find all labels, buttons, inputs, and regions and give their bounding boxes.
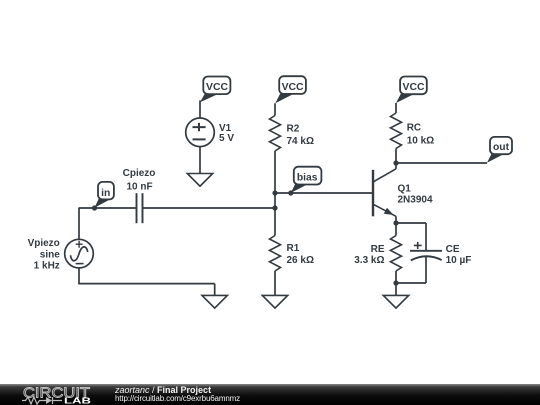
sine source Vpiezo (65, 239, 94, 268)
svg-text:RE: RE (371, 244, 385, 255)
svg-text:R2: R2 (287, 124, 300, 135)
node flag in (95, 182, 114, 208)
svg-text:bias: bias (297, 172, 318, 183)
svg-text:out: out (493, 142, 510, 153)
wire bias node to Q1 base (275, 192, 373, 194)
wire CE bottom plate down (425, 257, 427, 283)
wire VCC1 to V1 top (199, 100, 201, 118)
wire RE bottom to node (395, 271, 397, 283)
capacitor Cpiezo (137, 193, 143, 223)
svg-text:Cpiezo: Cpiezo (123, 168, 156, 179)
svg-text:V1: V1 (219, 123, 232, 134)
wire Cpiezo right plate to bias column (143, 207, 276, 209)
svg-text:3.3 kΩ: 3.3 kΩ (354, 255, 384, 266)
node flag VCC (over R2) (275, 76, 306, 103)
svg-text:in: in (101, 188, 110, 199)
wire CE column down to top plate (425, 223, 427, 251)
wire out node horizontal (396, 162, 487, 164)
svg-text:10 kΩ: 10 kΩ (407, 136, 434, 147)
node flag VCC (over V1) (200, 77, 230, 103)
svg-text:5 V: 5 V (219, 133, 234, 144)
wire CE bottom to emitter ground node (396, 282, 426, 284)
wire RE node to ground (395, 283, 397, 295)
node bias junction dot (R2/R1/base) (272, 190, 277, 195)
node in-wire junction dot (272, 205, 277, 210)
svg-text:LAB: LAB (64, 396, 91, 405)
capacitor CE (polarized) (410, 242, 442, 261)
wire emitter node to CE top (396, 222, 426, 224)
svg-text:sine: sine (40, 249, 60, 260)
resistor R1 (270, 236, 281, 272)
ground below R1 (262, 295, 287, 308)
ground below RE (383, 295, 408, 308)
svg-text:10 nF: 10 nF (126, 182, 152, 193)
svg-text:74 kΩ: 74 kΩ (287, 136, 314, 147)
footer bar (0, 384, 540, 405)
node bias flag dot (288, 190, 293, 195)
svg-text:RC: RC (407, 123, 421, 134)
wire bottom horizontal to ground (78, 283, 215, 285)
svg-text:Q1: Q1 (398, 184, 412, 195)
wire VCC3 to RC top (395, 103, 397, 113)
wire RC bottom to out node (395, 149, 397, 164)
resistor RC (391, 113, 402, 148)
svg-text:Vpiezo: Vpiezo (28, 238, 60, 249)
node flag bias (291, 167, 322, 193)
svg-text:2N3904: 2N3904 (398, 194, 433, 205)
node emitter-ground junction dot (393, 280, 398, 285)
svg-text:VCC: VCC (403, 82, 425, 93)
svg-text:CE: CE (446, 244, 460, 255)
wire emitter vertical to node (395, 216, 397, 223)
transistor Q1 2N3904 (373, 169, 396, 217)
wire VCC2 to R2 top (274, 103, 276, 115)
ground below Vpiezo rail (202, 295, 227, 308)
svg-text:VCC: VCC (282, 82, 304, 93)
wire ground stem left (214, 284, 216, 296)
node in junction dot (92, 205, 97, 210)
wire V1 bottom to ground (199, 147, 201, 174)
node emitter junction dot (393, 220, 398, 225)
wire R2 bottom through bias node down to R1 top (274, 151, 276, 236)
wire Vpiezo- down (78, 268, 80, 284)
svg-text:VCC: VCC (206, 82, 228, 93)
node flag VCC (over RC) (396, 77, 427, 104)
voltage source V1 (186, 118, 215, 147)
wire collector vertical (395, 163, 397, 169)
svg-text:R1: R1 (287, 243, 300, 254)
CircuitLab logo (21, 383, 121, 405)
svg-text:10 µF: 10 µF (446, 255, 472, 266)
node flag out (487, 137, 512, 163)
svg-text:26 kΩ: 26 kΩ (287, 255, 314, 266)
wire left rail top (in node to Vpiezo+) (78, 208, 80, 240)
svg-text:1 kHz: 1 kHz (34, 260, 60, 271)
ground below V1 (187, 174, 212, 187)
node out junction dot (393, 160, 398, 165)
wire in node to Cpiezo left plate (79, 207, 137, 209)
wire emitter node to RE top (395, 223, 397, 236)
wire R1 bottom to ground (274, 271, 276, 295)
resistor R2 (270, 116, 281, 151)
resistor RE (391, 236, 402, 272)
